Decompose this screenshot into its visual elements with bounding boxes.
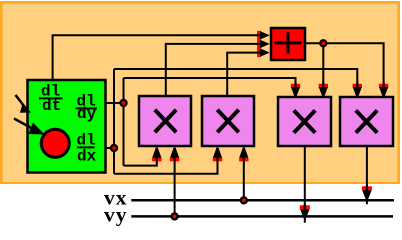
svg-text:vy: vy: [104, 203, 128, 227]
svg-text:dt: dt: [42, 97, 61, 115]
svg-text:dx: dx: [77, 148, 97, 166]
